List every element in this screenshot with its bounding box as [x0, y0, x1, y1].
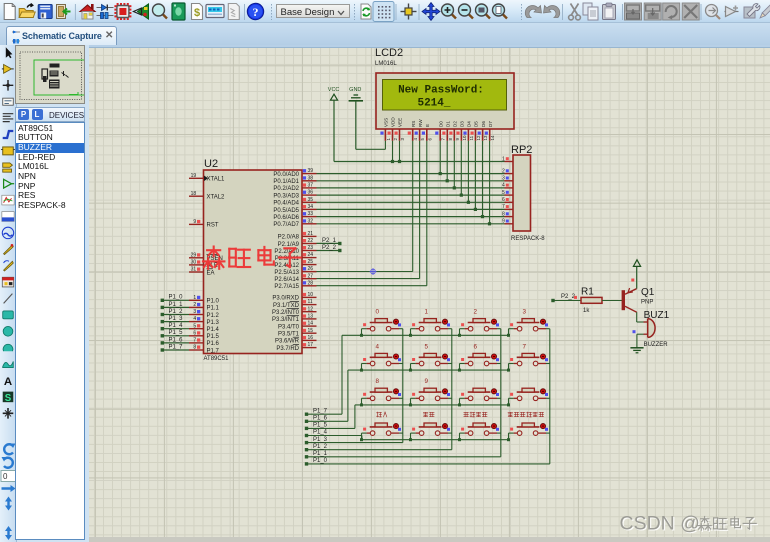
svg-text:14: 14	[490, 135, 495, 141]
svg-text:AT89C51: AT89C51	[204, 356, 230, 362]
svg-text:D2: D2	[453, 121, 458, 127]
svg-text:11: 11	[308, 299, 313, 305]
svg-text:P1.3: P1.3	[207, 320, 220, 326]
svg-text:1k: 1k	[583, 308, 590, 314]
svg-text:P1.6: P1.6	[207, 341, 220, 347]
svg-text:7: 7	[441, 138, 446, 141]
svg-text:6: 6	[193, 330, 196, 336]
svg-text:7: 7	[522, 343, 526, 350]
svg-text:P0.2/AD2: P0.2/AD2	[273, 186, 299, 192]
svg-text:P2.0/A8: P2.0/A8	[278, 235, 300, 241]
svg-text:P1.5: P1.5	[207, 334, 220, 340]
svg-text:5: 5	[193, 323, 196, 329]
svg-text:P1_5: P1_5	[169, 330, 184, 336]
svg-text:39: 39	[308, 168, 314, 174]
svg-text:5: 5	[424, 343, 428, 350]
svg-text:RS: RS	[411, 121, 416, 127]
svg-text:9: 9	[424, 378, 428, 385]
svg-text:?: ?	[253, 5, 259, 19]
svg-text:26: 26	[308, 266, 314, 272]
svg-text:D3: D3	[460, 121, 465, 127]
svg-text:6: 6	[427, 138, 432, 141]
svg-text:P1.2: P1.2	[207, 313, 220, 319]
svg-text:P2.1/A9: P2.1/A9	[278, 242, 300, 248]
svg-text:16: 16	[308, 335, 314, 341]
svg-text:21: 21	[308, 231, 314, 237]
svg-text:P0.1/AD1: P0.1/AD1	[273, 179, 299, 185]
svg-text:P2.2/A10: P2.2/A10	[274, 249, 299, 255]
svg-text:GND: GND	[349, 87, 361, 93]
svg-text:P2.5/A13: P2.5/A13	[274, 270, 299, 276]
svg-text:P3.6/WR: P3.6/WR	[275, 339, 300, 345]
svg-text:P2.7/A15: P2.7/A15	[274, 284, 299, 290]
svg-text:XTAL2: XTAL2	[207, 195, 226, 201]
svg-text:P1_7: P1_7	[313, 408, 328, 414]
svg-text:5: 5	[420, 138, 425, 141]
svg-text:P1_5: P1_5	[313, 423, 328, 429]
svg-text:36: 36	[308, 190, 314, 196]
svg-text:P1_2: P1_2	[169, 309, 184, 315]
svg-text:D7: D7	[488, 121, 493, 127]
svg-text:18: 18	[191, 191, 197, 197]
svg-text:38: 38	[308, 175, 314, 181]
svg-text:12: 12	[308, 306, 314, 312]
svg-text:U2: U2	[204, 158, 218, 170]
svg-text:P2_2: P2_2	[322, 245, 337, 251]
svg-text:9: 9	[455, 138, 460, 141]
svg-text:2: 2	[193, 302, 196, 308]
svg-text:P1_1: P1_1	[169, 302, 184, 308]
svg-text:17: 17	[308, 342, 314, 348]
svg-text:VCC: VCC	[328, 87, 340, 93]
svg-text:P3.1/TXD: P3.1/TXD	[273, 303, 300, 309]
svg-text:P3.4/T0: P3.4/T0	[278, 324, 300, 330]
svg-text:23: 23	[308, 245, 314, 251]
svg-text:6: 6	[473, 343, 477, 350]
svg-text:31: 31	[191, 267, 197, 273]
svg-text:P2.6/A14: P2.6/A14	[274, 277, 299, 283]
svg-text:BUZZER: BUZZER	[644, 342, 669, 348]
svg-text:P0.6/AD6: P0.6/AD6	[273, 215, 299, 221]
svg-text:RESPACK-8: RESPACK-8	[511, 236, 545, 242]
svg-text:D4: D4	[467, 121, 472, 127]
svg-text:5214_: 5214_	[417, 98, 450, 110]
svg-text:1: 1	[386, 138, 391, 141]
svg-text:P0.4/AD4: P0.4/AD4	[273, 201, 299, 207]
svg-text:D1: D1	[446, 121, 451, 127]
svg-text:9: 9	[193, 219, 196, 225]
svg-text:P3.2/INT0: P3.2/INT0	[272, 310, 300, 316]
svg-text:CSDN @: CSDN @	[620, 513, 700, 535]
svg-text:A: A	[4, 376, 12, 388]
svg-text:0: 0	[375, 309, 379, 316]
svg-text:S: S	[5, 393, 12, 404]
svg-text:22: 22	[308, 238, 314, 244]
svg-text:P1_0: P1_0	[313, 458, 328, 464]
svg-text:PNP: PNP	[641, 300, 653, 306]
svg-text:E: E	[425, 124, 430, 127]
svg-text:LM016L: LM016L	[375, 61, 397, 67]
svg-text:8: 8	[193, 345, 196, 351]
svg-text:11: 11	[469, 135, 474, 140]
svg-text:P3.3/INT1: P3.3/INT1	[272, 317, 300, 323]
svg-text:LCD2: LCD2	[375, 47, 403, 59]
svg-text:32: 32	[308, 218, 314, 224]
svg-text:P1_7: P1_7	[169, 344, 184, 350]
svg-text:P0.3/AD3: P0.3/AD3	[273, 193, 299, 199]
svg-text:13: 13	[483, 135, 488, 141]
svg-text:P3.0/RXD: P3.0/RXD	[272, 296, 299, 302]
svg-text:14: 14	[308, 321, 314, 327]
svg-text:29: 29	[191, 252, 197, 258]
svg-text:EA: EA	[207, 270, 215, 276]
svg-text:27: 27	[308, 273, 314, 279]
svg-text:4: 4	[193, 316, 196, 322]
svg-text:24: 24	[308, 252, 314, 258]
svg-text:RP2: RP2	[511, 144, 532, 156]
svg-text:4: 4	[375, 343, 379, 350]
svg-text:P1.7: P1.7	[207, 348, 220, 354]
svg-text:P1_4: P1_4	[169, 323, 184, 329]
svg-text:8: 8	[448, 138, 453, 141]
svg-text:0: 0	[3, 472, 8, 481]
svg-text:10: 10	[308, 292, 314, 298]
svg-text:New PassWord:: New PassWord:	[398, 85, 484, 97]
svg-text:1: 1	[424, 309, 428, 316]
svg-text:2: 2	[473, 309, 477, 316]
svg-text:RW: RW	[418, 119, 423, 127]
svg-text:P1_0: P1_0	[169, 295, 184, 301]
svg-text:3: 3	[400, 138, 405, 141]
svg-text:7: 7	[193, 338, 196, 344]
svg-text:P0.5/AD5: P0.5/AD5	[273, 208, 299, 214]
svg-text:P1_4: P1_4	[313, 430, 328, 436]
svg-text:VDD: VDD	[391, 117, 396, 127]
svg-text:P0.0/AD0: P0.0/AD0	[273, 172, 299, 178]
svg-text:1: 1	[502, 156, 505, 162]
svg-text:P0.7/AD7: P0.7/AD7	[273, 222, 299, 228]
svg-text:3: 3	[522, 309, 526, 316]
svg-text:19: 19	[191, 173, 197, 179]
svg-text:XTAL1: XTAL1	[207, 177, 226, 183]
svg-text:P3.7/RD: P3.7/RD	[276, 346, 299, 352]
svg-text:P1.1: P1.1	[207, 306, 220, 312]
svg-text:28: 28	[308, 280, 314, 286]
svg-text:P2_1: P2_1	[322, 238, 337, 244]
svg-text:12: 12	[476, 135, 481, 141]
svg-text:34: 34	[308, 204, 314, 210]
svg-text:15: 15	[308, 328, 314, 334]
svg-text:10: 10	[462, 135, 467, 141]
svg-text:33: 33	[308, 211, 314, 217]
svg-text:$: $	[194, 7, 200, 19]
svg-text:4: 4	[413, 138, 418, 141]
svg-text:VSS: VSS	[384, 118, 389, 127]
svg-text:35: 35	[308, 197, 314, 203]
svg-text:R1: R1	[581, 287, 594, 298]
svg-text:P1_3: P1_3	[313, 437, 328, 443]
svg-text:2: 2	[393, 138, 398, 141]
svg-text:P1_2: P1_2	[313, 444, 328, 450]
svg-text:25: 25	[308, 259, 314, 265]
svg-text:30: 30	[191, 260, 197, 266]
svg-text:RST: RST	[207, 223, 219, 229]
svg-text:VEE: VEE	[398, 118, 403, 127]
svg-text:8: 8	[375, 378, 379, 385]
svg-text:Q1: Q1	[641, 287, 655, 298]
svg-text:1: 1	[193, 295, 196, 301]
svg-text:P3.5/T1: P3.5/T1	[278, 332, 300, 338]
svg-text:13: 13	[308, 314, 314, 320]
svg-text:P1.4: P1.4	[207, 327, 220, 333]
svg-text:D5: D5	[474, 121, 479, 127]
svg-text:P1_1: P1_1	[313, 451, 328, 457]
svg-text:37: 37	[308, 183, 314, 189]
svg-text:P1_6: P1_6	[313, 416, 328, 422]
svg-text:P1_6: P1_6	[169, 337, 184, 343]
svg-text:3: 3	[193, 309, 196, 315]
svg-text:P2_2: P2_2	[561, 294, 576, 300]
svg-text:P1.0: P1.0	[207, 299, 220, 305]
svg-text:P1_3: P1_3	[169, 316, 184, 322]
svg-text:D6: D6	[481, 121, 486, 127]
svg-text:D0: D0	[438, 121, 443, 127]
